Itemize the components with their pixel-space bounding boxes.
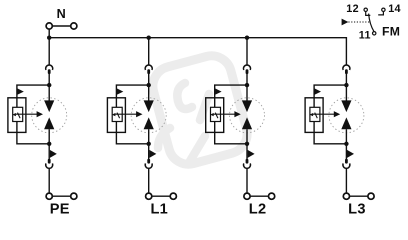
plug-in connector socket (top, PE branch): [46, 65, 53, 70]
node: upper junction (L3 branch): [344, 83, 348, 87]
wire: box top lead (L1 branch): [115, 98, 117, 107]
wire: pin to junction (L1 branch): [148, 74, 150, 86]
wire: box bottom lead (L2 branch): [214, 121, 216, 132]
terminal PE right circle: [71, 193, 77, 199]
wire: N terminal drop: [48, 29, 50, 37]
terminal N right circle: [71, 23, 77, 29]
terminal N left circle: [46, 23, 52, 29]
disconnector element box inner (L1 branch): [112, 107, 122, 121]
watermark logo: [148, 51, 251, 168]
svg-text:14: 14: [388, 3, 401, 15]
wire: junction to bottom pin (PE branch): [48, 144, 50, 159]
arrow: disconnect indicator upper (PE branch): [17, 88, 24, 94]
arrow: FM actuation: [342, 19, 349, 26]
wire: spark gap to lower junction (PE branch): [48, 129, 50, 144]
terminal PE left circle: [46, 193, 52, 199]
svg-text:11: 11: [359, 30, 371, 42]
wire: socket to terminal (L2 branch): [246, 168, 248, 193]
disconnector element symbol (L1 branch): [112, 113, 116, 116]
wire: box top lead (L3 branch): [313, 98, 315, 107]
wire: pin to junction (PE branch): [48, 74, 50, 86]
dashed circle: SPD module boundary (PE branch): [32, 98, 67, 133]
plug-in connector pin (top, PE branch): [48, 69, 51, 74]
arrow: disconnect indicator lower (L1 branch): [149, 150, 156, 158]
wire: box bottom lead (L3 branch): [313, 121, 315, 132]
wire: spark gap to lower junction (L2 branch): [246, 129, 248, 144]
disconnector element symbol (L3 branch): [310, 113, 314, 116]
disconnector box outer (PE branch): [8, 98, 26, 133]
terminal L3 right circle: [368, 193, 374, 199]
arrow: disconnect indicator lower (PE branch): [50, 150, 57, 158]
plug-in connector socket (bottom, PE branch): [46, 163, 53, 168]
wire: N bus (top horizontal, corner down at L3 branch): [49, 38, 346, 65]
wire: spark gap to lower junction (L3 branch): [345, 129, 347, 144]
FM contact terminal 11 circle: [373, 32, 376, 35]
plug-in connector socket (bottom, L3 branch): [343, 163, 350, 168]
wire: drop from bus (L1 branch): [148, 38, 150, 65]
wire: junction to bottom pin (L3 branch): [345, 144, 347, 159]
plug-in connector pin (bottom, L3 branch): [345, 159, 348, 164]
arrow: disconnect indicator lower (L2 branch): [248, 150, 255, 158]
wire: box top lead (L2 branch): [214, 98, 216, 107]
wire: socket to terminal (L3 branch): [345, 168, 347, 193]
node: bus junction L1 branch: [147, 36, 151, 40]
dashed circle: SPD module boundary (L1 branch): [131, 98, 166, 133]
wire: box to lower junction (L3 branch): [314, 132, 346, 143]
wire: socket to terminal (PE branch): [48, 168, 50, 193]
arrow: trip linkage (L1 branch): [115, 113, 137, 115]
FM contact terminal 14 circle: [382, 8, 385, 11]
arrow: disconnect indicator lower (L3 branch): [347, 150, 354, 158]
plug-in connector pin (top, L3 branch): [345, 69, 348, 74]
plug-in connector socket (top, L3 branch): [343, 65, 350, 70]
plug-in connector socket (top, L2 branch): [244, 65, 251, 70]
plug-in connector pin (top, L2 branch): [246, 69, 249, 74]
node: lower junction (L1 branch): [147, 142, 151, 146]
dashed circle: SPD module boundary (L3 branch): [329, 98, 364, 133]
wire: box to lower junction (PE branch): [17, 132, 49, 143]
wire: box to lower junction (L1 branch): [116, 132, 148, 143]
wire: junction to spark gap (L1 branch): [148, 85, 150, 101]
spark gap lower electrode (L3 branch): [341, 117, 351, 129]
disconnector element symbol (L2 branch): [210, 113, 214, 116]
disconnector element symbol (PE branch): [12, 113, 16, 116]
wire: junction to bottom pin (L2 branch): [246, 144, 248, 159]
terminal L1 right circle: [170, 193, 176, 199]
arrow: disconnect indicator upper (L1 branch): [117, 88, 124, 94]
terminal L2 left circle: [244, 193, 250, 199]
plug-in connector socket (bottom, L2 branch): [244, 163, 251, 168]
wire: box to lower junction (L2 branch): [215, 132, 247, 143]
wire: to disconnector box (PE branch): [17, 85, 49, 98]
node: bus junction PE branch: [47, 36, 51, 40]
wire: pin to junction (L3 branch): [345, 74, 347, 86]
disconnector box outer (L3 branch): [305, 98, 323, 133]
arrow: trip linkage (PE branch): [16, 113, 38, 115]
wire: socket to terminal (L1 branch): [148, 168, 150, 193]
svg-text:N: N: [57, 7, 66, 21]
wire: terminal link (L2): [250, 195, 268, 197]
spark gap upper electrode (L3 branch): [341, 100, 351, 112]
wire: terminal link (L1): [152, 195, 170, 197]
wire: box bottom lead (L1 branch): [115, 121, 117, 132]
node: upper junction (L2 branch): [245, 83, 249, 87]
plug-in connector pin (bottom, L1 branch): [147, 159, 150, 164]
disconnector box outer (L1 branch): [107, 98, 125, 133]
node: lower junction (PE branch): [47, 142, 51, 146]
wire: junction to spark gap (L3 branch): [345, 85, 347, 101]
node: upper junction (L1 branch): [147, 83, 151, 87]
spark gap lower electrode (L2 branch): [242, 117, 252, 129]
disconnector box outer (L2 branch): [206, 98, 224, 133]
disconnector element box inner (L2 branch): [211, 107, 221, 121]
plug-in connector pin (top, L1 branch): [147, 69, 150, 74]
spark gap upper electrode (PE branch): [44, 100, 54, 112]
plug-in connector socket (top, L1 branch): [145, 65, 152, 70]
wire: drop from bus (PE branch): [48, 38, 50, 65]
plug-in connector pin (bottom, PE branch): [48, 159, 51, 164]
svg-text:L3: L3: [348, 201, 366, 217]
disconnector element box inner (PE branch): [13, 107, 23, 121]
FM contact terminal 12 circle: [364, 8, 367, 11]
spark gap lower electrode (L1 branch): [144, 117, 154, 129]
FM contact seat 14: [378, 12, 383, 15]
spark gap lower electrode (PE branch): [44, 117, 54, 129]
plug-in connector pin (bottom, L2 branch): [246, 159, 249, 164]
arrow: disconnect indicator upper (L2 branch): [215, 88, 222, 94]
FM moving contact blade: [369, 14, 374, 32]
plug-in connector socket (bottom, L1 branch): [145, 163, 152, 168]
disconnector element box inner (L3 branch): [310, 107, 320, 121]
wire: junction to bottom pin (L1 branch): [148, 144, 150, 159]
wire: terminal link (L3): [350, 195, 368, 197]
wire: to disconnector box (L2 branch): [215, 85, 247, 98]
wire: spark gap to lower junction (L1 branch): [148, 129, 150, 144]
wire: junction to spark gap (PE branch): [48, 85, 50, 101]
svg-text:PE: PE: [50, 201, 70, 217]
wire: N terminal link: [53, 25, 71, 27]
dashed actuation line to FM contact: [348, 21, 370, 23]
node: lower junction (L2 branch): [245, 142, 249, 146]
svg-text:L1: L1: [150, 201, 168, 217]
svg-text:12: 12: [346, 3, 359, 15]
terminal L3 left circle: [343, 193, 349, 199]
node: lower junction (L3 branch): [344, 142, 348, 146]
terminal L1 left circle: [146, 193, 152, 199]
wire: drop from bus (L2 branch): [246, 38, 248, 65]
spark gap upper electrode (L2 branch): [242, 100, 252, 112]
wire: box bottom lead (PE branch): [16, 121, 18, 132]
node: bus junction L2 branch: [245, 36, 249, 40]
wire: to disconnector box (L1 branch): [116, 85, 148, 98]
wire: to disconnector box (L3 branch): [314, 85, 346, 98]
arrow: trip linkage (L3 branch): [313, 113, 335, 115]
wire: box top lead (PE branch): [16, 98, 18, 107]
wire: pin to junction (L2 branch): [246, 74, 248, 86]
dashed circle: SPD module boundary (L2 branch): [230, 98, 265, 133]
wire: terminal link (PE): [53, 195, 71, 197]
terminal L2 right circle: [269, 193, 275, 199]
FM contact seat 12: [366, 12, 371, 16]
svg-text:FM: FM: [382, 24, 400, 38]
svg-text:L2: L2: [249, 201, 267, 217]
arrow: trip linkage (L2 branch): [214, 113, 236, 115]
spark gap upper electrode (L1 branch): [144, 100, 154, 112]
node: upper junction (PE branch): [47, 83, 51, 87]
wire: junction to spark gap (L2 branch): [246, 85, 248, 101]
arrow: disconnect indicator upper (L3 branch): [315, 88, 322, 94]
